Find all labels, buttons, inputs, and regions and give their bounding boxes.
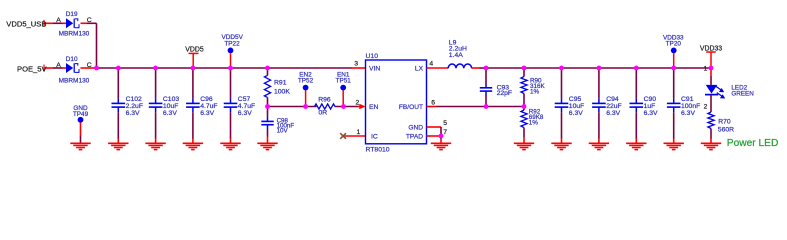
- wire TPAD pin7 stub: [427, 127, 442, 143]
- junction bus-D19: [94, 66, 99, 71]
- diode D19 MBRM130: [56, 11, 92, 38]
- svg-text:D19: D19: [66, 11, 78, 18]
- svg-text:6.3V: 6.3V: [163, 110, 177, 117]
- LED LED2 GREEN: [704, 66, 755, 111]
- svg-text:TP49: TP49: [73, 111, 89, 118]
- svg-text:10uF: 10uF: [569, 103, 585, 110]
- wire FB/OUT net: [427, 106, 525, 108]
- svg-text:6.3V: 6.3V: [200, 110, 214, 117]
- capacitor C96 4.7uF 6.3V: [186, 68, 217, 143]
- ground C95: [551, 143, 571, 149]
- svg-text:FB/OUT: FB/OUT: [399, 104, 423, 111]
- testpoint EN1 TP51: [336, 72, 352, 107]
- wire EN net: [268, 106, 360, 108]
- capacitor C98 100nF 10V: [261, 107, 294, 144]
- wire LX pin4 to L9: [427, 67, 449, 69]
- svg-text:C103: C103: [163, 96, 179, 103]
- svg-text:A: A: [56, 62, 61, 69]
- svg-text:R70: R70: [718, 118, 731, 125]
- svg-text:VDD5_USB: VDD5_USB: [6, 20, 46, 29]
- junction out-C95: [559, 66, 564, 71]
- junction bus-C102: [116, 66, 121, 71]
- resistor R91 100K: [264, 68, 290, 107]
- svg-text:C91: C91: [681, 96, 694, 103]
- svg-text:RT8010: RT8010: [366, 146, 390, 153]
- svg-text:22pF: 22pF: [497, 90, 512, 97]
- junction out-C93: [484, 66, 489, 71]
- no-connect X on pin 1: [340, 133, 346, 139]
- svg-text:4.7uF: 4.7uF: [200, 103, 217, 110]
- ground C90: [626, 143, 646, 149]
- svg-text:C95: C95: [569, 96, 582, 103]
- svg-text:4.7uF: 4.7uF: [238, 103, 255, 110]
- testpoint VDD33 TP20: [663, 35, 684, 69]
- svg-text:D10: D10: [66, 56, 78, 63]
- resistor R96 0R: [315, 96, 336, 116]
- junction FB-C93: [484, 104, 489, 109]
- svg-text:TP20: TP20: [666, 41, 682, 48]
- svg-text:TPAD: TPAD: [406, 134, 423, 141]
- ground C94: [589, 143, 609, 149]
- svg-text:VDD5: VDD5: [185, 47, 204, 54]
- pin2 EN arrow: [359, 104, 365, 110]
- svg-text:Power LED: Power LED: [727, 138, 779, 149]
- IC U10 RT8010 buck regulator: [366, 53, 427, 153]
- capacitor C103 10uF 6.3V: [149, 68, 180, 143]
- ground C98: [257, 143, 277, 149]
- junction R91-C98-EN: [265, 104, 270, 109]
- svg-text:4: 4: [429, 61, 433, 68]
- svg-text:6.3V: 6.3V: [644, 110, 658, 117]
- svg-text:U10: U10: [366, 53, 379, 60]
- svg-text:6.3V: 6.3V: [126, 110, 140, 117]
- svg-text:C90: C90: [644, 96, 657, 103]
- svg-text:EN: EN: [369, 104, 379, 111]
- svg-text:IC: IC: [371, 134, 378, 141]
- capacitor C102 2.2uF 6.3V: [112, 68, 143, 143]
- svg-text:A: A: [56, 17, 61, 24]
- svg-text:22uF: 22uF: [606, 103, 622, 110]
- svg-text:100K: 100K: [274, 89, 290, 96]
- svg-text:C96: C96: [200, 96, 213, 103]
- testpoint EN2 TP52: [298, 72, 314, 107]
- svg-text:MBRM130: MBRM130: [59, 31, 90, 38]
- svg-text:2.2uF: 2.2uF: [126, 103, 143, 110]
- svg-text:LX: LX: [415, 66, 424, 73]
- svg-text:GREEN: GREEN: [731, 90, 754, 97]
- svg-text:2: 2: [356, 100, 360, 107]
- svg-text:7: 7: [443, 129, 447, 136]
- junction FB-R90-R92: [522, 104, 527, 109]
- capacitor C95 10uF 6.3V: [555, 68, 585, 143]
- capacitor C57 4.7uF 6.3V: [224, 68, 255, 143]
- svg-text:6.3V: 6.3V: [238, 110, 252, 117]
- wire VDD5 bus: [95, 67, 366, 69]
- junction out-LED: [709, 66, 714, 71]
- svg-text:TP52: TP52: [298, 78, 314, 85]
- svg-text:560R: 560R: [718, 127, 734, 134]
- svg-text:R91: R91: [274, 80, 287, 87]
- svg-text:1uF: 1uF: [644, 103, 656, 110]
- resistor R70 560R: [708, 112, 734, 143]
- ground C103: [145, 143, 165, 149]
- svg-text:1.4A: 1.4A: [449, 52, 463, 59]
- junction EN-TP51: [341, 104, 346, 109]
- svg-text:MBRM130: MBRM130: [59, 78, 90, 85]
- svg-text:TP51: TP51: [336, 78, 352, 85]
- svg-text:R96: R96: [318, 96, 331, 103]
- capacitor C90 1uF 6.3V: [630, 68, 659, 143]
- svg-text:1: 1: [704, 66, 708, 73]
- wire D10 cathode to bus junction: [81, 67, 95, 69]
- svg-text:1%: 1%: [530, 89, 540, 96]
- inductor L9 2.2uH 1.4A: [448, 39, 471, 68]
- svg-text:6.3V: 6.3V: [681, 110, 695, 117]
- svg-text:1%: 1%: [529, 119, 539, 126]
- wire pin1 stub: [345, 135, 366, 137]
- junction bus-R91: [265, 66, 270, 71]
- junction EN-TP52: [303, 104, 308, 109]
- diode D10 MBRM130: [56, 56, 92, 85]
- wire VDD5_USB from port to D19 anode: [44, 20, 66, 27]
- resistor R90 316K 1%: [521, 68, 546, 107]
- capacitor C91 100nF 6.3V: [667, 68, 700, 143]
- svg-text:VDD33: VDD33: [700, 46, 722, 53]
- wire VDD33 output bus: [486, 67, 711, 69]
- pin number labels U10: [354, 61, 447, 137]
- svg-text:5: 5: [443, 120, 447, 127]
- power symbol VDD5: [185, 47, 204, 68]
- junction bus-C57: [228, 66, 233, 71]
- svg-text:3: 3: [354, 61, 358, 68]
- capacitor C94 22uF 6.3V: [592, 68, 622, 143]
- svg-text:C102: C102: [126, 96, 142, 103]
- svg-text:6: 6: [431, 100, 435, 107]
- ground LED: [701, 143, 721, 149]
- svg-text:C57: C57: [238, 96, 251, 103]
- wire L9 to output node: [472, 67, 486, 69]
- ground C102: [108, 143, 128, 149]
- wire D19 cathode to bus: [81, 23, 97, 68]
- testpoint VDD5V TP22: [222, 34, 244, 68]
- junction GND-TPAD: [439, 134, 444, 139]
- ground C57: [220, 143, 240, 149]
- svg-text:GND: GND: [408, 124, 423, 131]
- svg-text:C94: C94: [606, 96, 619, 103]
- ground C91: [664, 143, 684, 149]
- junction out-C94: [597, 66, 602, 71]
- capacitor C93 22pF: [480, 68, 512, 107]
- svg-text:10uF: 10uF: [163, 103, 179, 110]
- ground R92: [514, 143, 534, 149]
- ground C96: [183, 143, 203, 149]
- wire LED to R70: [710, 95, 712, 112]
- junction out-C90: [634, 66, 639, 71]
- wire GND pin5 stub: [427, 126, 442, 128]
- svg-text:POE_5V: POE_5V: [17, 64, 47, 73]
- junction bus-C103: [153, 66, 158, 71]
- svg-text:1: 1: [357, 129, 361, 136]
- svg-text:6.3V: 6.3V: [569, 110, 583, 117]
- svg-text:2: 2: [704, 104, 708, 111]
- power symbol VDD33: [700, 46, 722, 68]
- testpoint GND TP49: [73, 105, 89, 143]
- ground U10 TPAD: [431, 143, 451, 149]
- resistor R92 69K8 1%: [521, 107, 544, 144]
- svg-text:10V: 10V: [277, 128, 289, 135]
- junction bus-C96: [191, 66, 196, 71]
- svg-text:100nF: 100nF: [681, 103, 700, 110]
- svg-text:6.3V: 6.3V: [606, 110, 620, 117]
- ground TP49: [70, 143, 90, 149]
- junction out-R90: [522, 66, 527, 71]
- svg-text:TP22: TP22: [224, 41, 240, 48]
- junction out-C91: [671, 66, 676, 71]
- svg-text:0R: 0R: [319, 110, 328, 117]
- wire POE_5V from port to D10 anode: [44, 65, 66, 72]
- svg-text:VIN: VIN: [369, 66, 380, 73]
